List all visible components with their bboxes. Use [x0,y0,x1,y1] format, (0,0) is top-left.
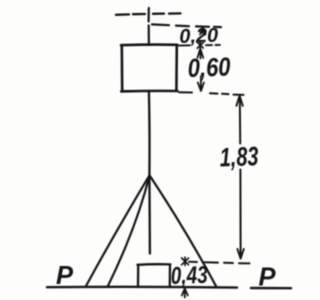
box-top dashed line [179,44,220,47]
svg-text:0,43: 0,43 [170,260,208,289]
tip centerline (dash-dot line at mast top) [116,13,181,14]
dimension line 1,83 [239,97,241,144]
mast below box, through tripod apex [149,92,150,254]
svg-text:0,20: 0,20 [179,25,219,48]
ground line [47,286,237,289]
ground line right segment [251,287,291,290]
svg-text:1,83: 1,83 [219,141,259,172]
tripod leg inner-left [108,176,149,286]
dimension arrow 0,60 [197,49,203,59]
antenna box [121,45,177,92]
asterisk terminator 0,43 top [182,257,189,265]
box-bottom dashed line [179,92,244,95]
svg-text:P: P [259,264,277,292]
svg-text:P: P [56,262,74,290]
mast above box [148,26,150,46]
dimension arrow 0,20 [200,27,205,35]
svg-text:0,60: 0,60 [187,53,231,84]
tip-level dashed line (0,20 upper reference) [152,24,221,27]
mast tip tick [148,8,150,22]
tripod leg right [150,176,217,287]
tripod leg outer-left [86,176,149,286]
base-top dashed line (1,83 lower reference) [189,262,250,264]
asterisk terminator at box-top level [197,41,203,48]
concrete base box [137,264,170,286]
0,43 bottom arrow below ground [182,289,188,298]
